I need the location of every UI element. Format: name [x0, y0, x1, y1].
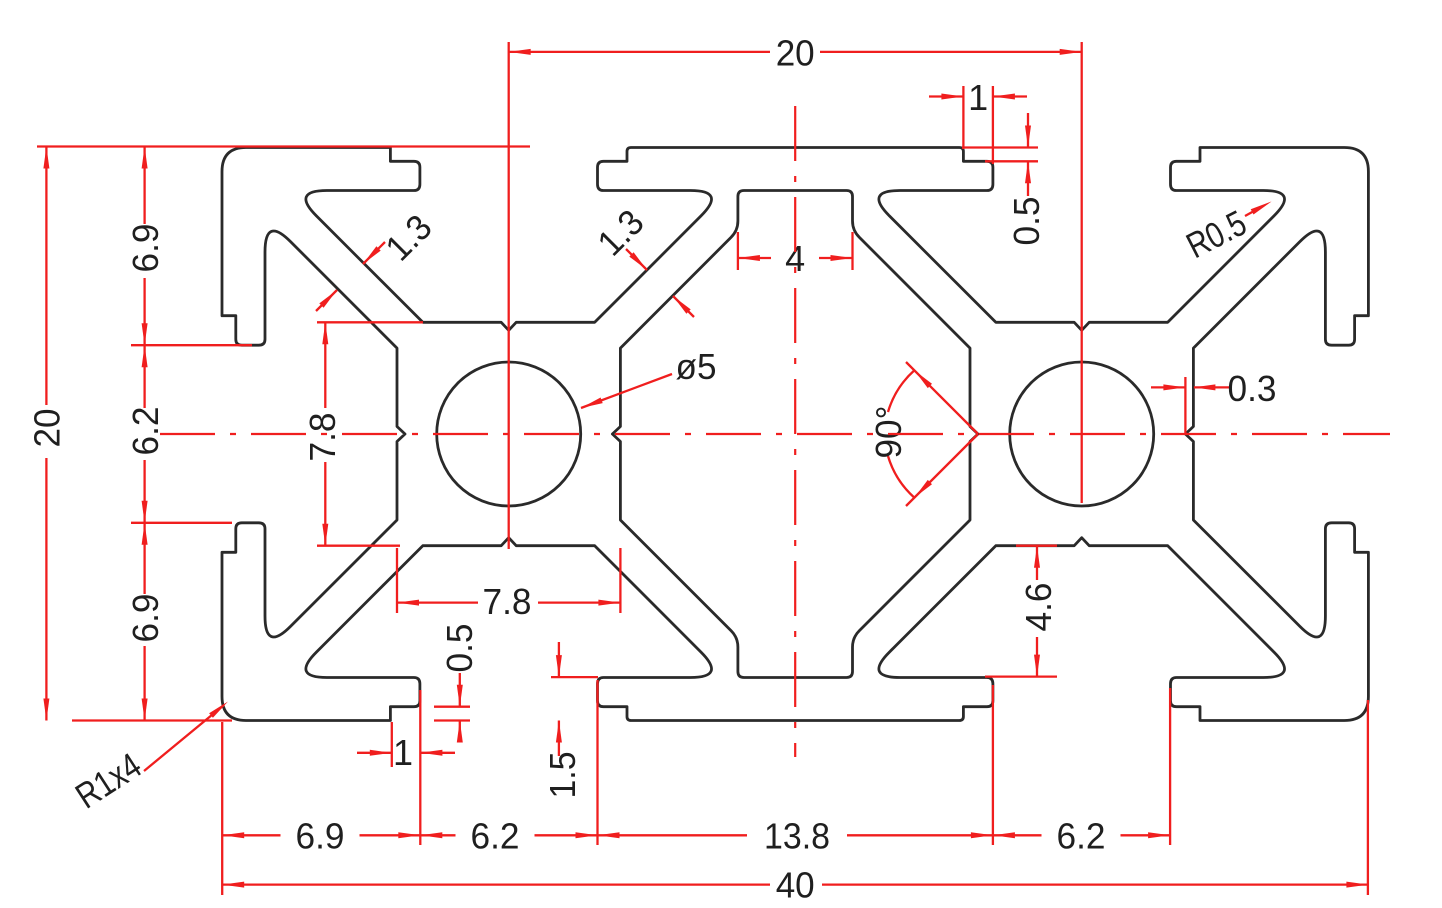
angle dimension 90° (V-groove): [868, 362, 978, 506]
dimension 1.3 (inner web thickness): [589, 201, 694, 317]
dimension 1 (top lip length): [929, 77, 1027, 164]
dimension chain 6.9 / 6.2 / 13.8 / 6.2 (bottom): [222, 680, 1170, 895]
svg-text:90°: 90°: [868, 406, 909, 459]
svg-text:0.5: 0.5: [1006, 197, 1047, 246]
svg-text:1: 1: [393, 732, 413, 773]
svg-text:6.9: 6.9: [296, 815, 345, 856]
dimension 4.6 (channel depth): [985, 546, 1059, 677]
svg-text:ø5: ø5: [676, 346, 717, 387]
enclosed centre cavity outline: [612, 191, 978, 678]
svg-text:R1x4: R1x4: [68, 745, 148, 817]
svg-text:40: 40: [776, 865, 815, 906]
svg-text:13.8: 13.8: [764, 815, 830, 856]
centre bore circle, right cell: [1010, 362, 1154, 506]
dimension 7.8 (boss width): [397, 548, 620, 622]
dimension 1.3 (corner web thickness): [316, 206, 440, 311]
diameter callout Ø5 (centre bore): [581, 346, 717, 408]
dimension 0.3 (V-groove depth): [1151, 368, 1277, 434]
dimension 0.5 (top lip step depth): [962, 113, 1047, 246]
svg-text:20: 20: [776, 33, 815, 74]
radius callout R0.5: [1180, 202, 1272, 267]
extrusion profile outer outline (40x20 V-slot): [222, 148, 1368, 721]
dimension 7.8 (boss height): [302, 322, 423, 545]
dimension 20 (left, profile height): [27, 147, 530, 721]
svg-text:7.8: 7.8: [302, 413, 343, 462]
dimension 20 (top, slot pitch): [509, 33, 1082, 549]
svg-text:1.3: 1.3: [589, 201, 651, 263]
svg-text:0.5: 0.5: [439, 624, 480, 673]
dimension 4 (centre notch width): [738, 232, 853, 279]
dimension 1 (bottom lip length): [357, 722, 455, 773]
svg-text:1.5: 1.5: [542, 752, 583, 799]
dimensions 6.9 / 6.2 / 6.9 (left edge): [125, 147, 252, 721]
centrelines: [160, 106, 1390, 757]
svg-text:R0.5: R0.5: [1180, 202, 1253, 266]
svg-text:6.2: 6.2: [1057, 815, 1106, 856]
dimension 1.5 (outer wall thickness): [542, 642, 598, 799]
svg-text:4.6: 4.6: [1018, 583, 1059, 632]
dimension 40 (profile width): [222, 700, 1368, 906]
svg-text:6.2: 6.2: [125, 407, 166, 456]
svg-text:6.9: 6.9: [125, 224, 166, 273]
svg-text:0.3: 0.3: [1228, 368, 1277, 409]
svg-text:1.3: 1.3: [377, 206, 439, 268]
svg-text:20: 20: [27, 409, 68, 448]
svg-text:6.2: 6.2: [471, 815, 520, 856]
svg-text:1: 1: [968, 77, 988, 118]
centre bore circle, left cell: [437, 362, 581, 506]
svg-text:7.8: 7.8: [483, 581, 532, 622]
radius callout R1x4 (corner radius): [68, 702, 228, 817]
svg-text:6.9: 6.9: [125, 594, 166, 643]
dimension 0.5 (bottom lip step depth): [434, 624, 480, 743]
